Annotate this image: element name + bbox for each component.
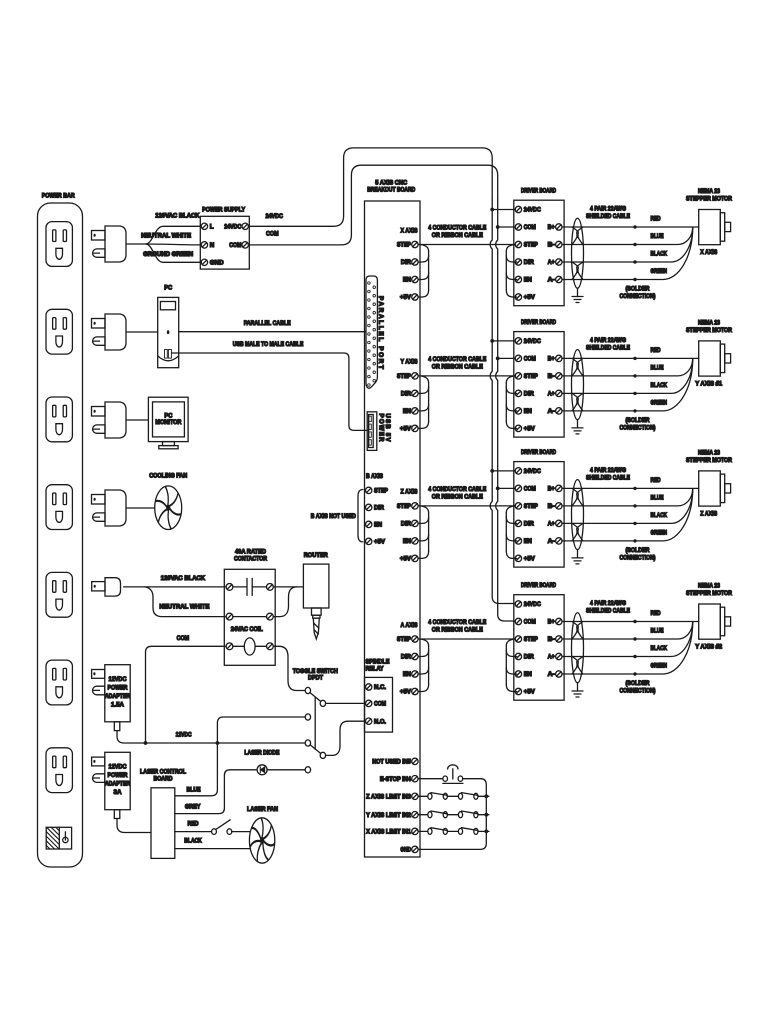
label NEUTRAL WHITE (contactor) — [159, 604, 209, 611]
wire GREY to laser diode line — [175, 770, 256, 814]
label LASER FAN — [247, 806, 278, 813]
ground symbol module 4 — [572, 683, 583, 697]
svg-text:DIR: DIR — [524, 259, 534, 266]
svg-text:GND: GND — [400, 847, 411, 854]
wire RED module 3 — [562, 487, 699, 490]
breakout Y AXIS terminals — [397, 359, 418, 433]
wire BLUE module 3 — [562, 489, 693, 508]
wire RED module 2 — [562, 357, 699, 360]
svg-text:STEPPER MOTOR: STEPPER MOTOR — [686, 327, 732, 334]
wire GREEN module 4 — [562, 622, 693, 676]
svg-text:BLUE: BLUE — [651, 233, 664, 240]
label NEMA 23 STEPPER MOTOR module 4 — [686, 583, 732, 598]
label GREEN module 3 — [651, 529, 668, 536]
svg-text:24VDC: 24VDC — [224, 224, 241, 231]
wire plug P4 to cooling fan — [126, 507, 155, 509]
svg-text:12VDC: 12VDC — [176, 732, 192, 739]
wire NEUTRAL WHITE branch — [145, 587, 226, 617]
plug P4 (cooling fan) — [92, 490, 127, 526]
svg-text:BLACK: BLACK — [651, 645, 668, 652]
label LASER CONTROL BOARD — [140, 768, 186, 782]
svg-text:4 PAIR 22AWG: 4 PAIR 22AWG — [590, 600, 626, 607]
wire cable fan driver side module 4 — [506, 639, 516, 692]
svg-text:STEP: STEP — [524, 636, 538, 643]
5 axis CNC breakout board — [365, 201, 421, 857]
USB 5V power connector — [367, 412, 377, 451]
label 4 PAIR 22AWG SHIELDED CABLE module 2 — [586, 337, 630, 352]
label RED module 3 — [651, 477, 661, 484]
wire 12VDC rail — [146, 741, 305, 745]
driver board module 4 — [514, 595, 564, 701]
svg-text:SHIELDED CABLE: SHIELDED CABLE — [586, 475, 630, 482]
svg-text:EN: EN — [403, 408, 411, 415]
shielded cable twisted pairs module 2 — [572, 350, 584, 420]
label GREY — [185, 803, 201, 810]
svg-text:RED: RED — [651, 610, 661, 617]
plug P1 (power supply) — [92, 226, 127, 262]
svg-text:4 PAIR 22AWG: 4 PAIR 22AWG — [590, 337, 626, 344]
svg-text:STEP: STEP — [397, 373, 411, 380]
label motor axis Z AXIS — [700, 511, 717, 518]
svg-text:EN: EN — [524, 408, 532, 415]
e-stop button — [443, 765, 463, 784]
power bar switch — [46, 827, 71, 849]
wire USB male to male cable — [172, 353, 368, 430]
svg-text:DPDT: DPDT — [308, 674, 323, 681]
svg-text:+5V: +5V — [400, 556, 412, 563]
label COM — [266, 231, 279, 238]
wire X AXIS cable fan (breakout side) — [418, 245, 429, 298]
svg-text:STEP: STEP — [374, 488, 388, 495]
svg-text:X AXIS: X AXIS — [700, 249, 717, 256]
svg-text:NEMA 23: NEMA 23 — [698, 449, 720, 456]
svg-text:CONNECTION): CONNECTION) — [620, 554, 656, 561]
svg-text:A-: A- — [548, 538, 555, 545]
wire COM branch module 2 — [496, 357, 515, 361]
label GREEN module 4 — [651, 662, 668, 669]
label RED module 4 — [651, 610, 661, 617]
label 24VDC — [265, 213, 283, 220]
svg-text:GREEN: GREEN — [651, 268, 668, 275]
label 4 CONDUCTOR CABLE module 3 — [428, 486, 486, 501]
svg-text:A+: A+ — [548, 654, 555, 661]
svg-text:X AXIS: X AXIS — [401, 227, 418, 234]
label USB MALE TO MALE CABLE — [233, 341, 304, 348]
label ROUTER — [304, 552, 328, 559]
svg-text:+5V: +5V — [524, 426, 536, 433]
svg-text:COM: COM — [177, 635, 190, 642]
breakout A AXIS terminals — [397, 622, 418, 696]
stepper motor module 2 (Y AXIS #1) — [699, 341, 731, 376]
laser diode D1 — [257, 765, 267, 775]
ground symbol module 2 — [572, 420, 583, 434]
wire plug P2 to PC — [126, 331, 158, 333]
svg-text:SHIELDED CABLE: SHIELDED CABLE — [586, 213, 630, 220]
wire BLACK module 1 — [562, 227, 693, 263]
label 12VDC — [176, 732, 192, 739]
wire 24VDC branch module 2 — [490, 339, 515, 343]
label 4 CONDUCTOR CABLE module 4 — [428, 619, 486, 634]
breakout B axis terminals (not used) — [366, 473, 389, 546]
label DRIVER BOARD module 1 — [521, 188, 556, 195]
svg-text:1.5A: 1.5A — [111, 701, 125, 708]
wire pole1 to relay COM — [326, 702, 366, 704]
svg-text:STEPPER MOTOR: STEPPER MOTOR — [686, 590, 732, 597]
svg-text:4 CONDUCTOR CABLE: 4 CONDUCTOR CABLE — [428, 619, 486, 626]
wire 24VDC branch module 3 — [490, 469, 515, 473]
svg-text:GREY: GREY — [185, 803, 201, 810]
wire RED with switch — [175, 820, 250, 835]
wire adapter 3A to laser control board — [117, 819, 151, 833]
svg-text:24VDC: 24VDC — [524, 468, 541, 475]
svg-text:SHIELDED CABLE: SHIELDED CABLE — [586, 345, 630, 352]
svg-text:NOT USED IN5: NOT USED IN5 — [372, 759, 411, 766]
svg-text:RED: RED — [651, 215, 661, 222]
label COOLING FAN — [149, 473, 187, 480]
wire RED module 1 — [562, 225, 699, 228]
svg-text:24VDC: 24VDC — [524, 207, 541, 214]
svg-text:BLUE: BLUE — [651, 364, 664, 371]
outlet 3 — [46, 397, 72, 442]
svg-text:Z AXIS: Z AXIS — [700, 511, 717, 518]
wire BLACK module 2 — [562, 359, 693, 395]
svg-text:DIR: DIR — [374, 505, 384, 512]
svg-text:(SOLDER: (SOLDER — [626, 286, 650, 293]
wire contactor row1 to router — [273, 586, 303, 588]
svg-text:+5V: +5V — [400, 426, 412, 433]
wire drop to laser board BLUE — [175, 743, 218, 796]
shielded cable twisted pairs module 1 — [572, 218, 584, 288]
label BLUE module 4 — [651, 627, 664, 634]
svg-text:EN: EN — [403, 277, 411, 284]
outlet 6 — [46, 660, 72, 705]
svg-text:+5V: +5V — [524, 556, 536, 563]
wire 24VDC branch module 1 — [490, 208, 515, 212]
svg-text:(SOLDER: (SOLDER — [626, 417, 650, 424]
svg-text:Y AXIS LIMIT IN2: Y AXIS LIMIT IN2 — [366, 812, 411, 819]
svg-text:24VDC: 24VDC — [265, 213, 283, 220]
svg-text:A+: A+ — [548, 259, 555, 266]
svg-text:STEP: STEP — [397, 636, 411, 643]
label SOLDER CONNECTION module 2 — [620, 417, 656, 431]
svg-text:DIR: DIR — [401, 391, 411, 398]
svg-text:ROUTER: ROUTER — [304, 552, 328, 559]
svg-text:POWER: POWER — [108, 772, 128, 779]
wire 120VAC BLACK to contactor — [124, 586, 226, 588]
wire A AXIS cable fan (breakout side) — [418, 639, 429, 692]
wire BLACK module 3 — [562, 489, 693, 525]
label motor axis Y AXIS #2 — [695, 644, 723, 651]
toggle switch DPDT S1 — [305, 687, 325, 773]
svg-text:5 AXIS CNC: 5 AXIS CNC — [375, 180, 407, 187]
svg-text:EN: EN — [374, 522, 382, 529]
svg-text:STEP: STEP — [524, 242, 538, 249]
svg-text:PARALLEL PORT: PARALLEL PORT — [377, 296, 384, 369]
svg-text:4 CONDUCTOR CABLE: 4 CONDUCTOR CABLE — [428, 486, 486, 493]
4 conductor cable module 4 — [418, 638, 515, 640]
svg-text:COM: COM — [524, 486, 536, 493]
svg-text:BLUE: BLUE — [651, 627, 664, 634]
wire RED module 4 — [562, 620, 699, 623]
breakout Z AXIS terminals — [397, 489, 418, 563]
svg-text:OR RIBBON CABLE: OR RIBBON CABLE — [432, 493, 483, 500]
label 4 CONDUCTOR CABLE module 1 — [428, 224, 486, 239]
svg-text:BLUE: BLUE — [187, 786, 201, 793]
40A rated contactor K1 — [224, 549, 275, 666]
svg-text:STEP: STEP — [524, 373, 538, 380]
svg-text:CONNECTION): CONNECTION) — [620, 424, 656, 431]
svg-text:NEUTRAL WHITE: NEUTRAL WHITE — [159, 604, 209, 611]
svg-text:X AXIS LIMIT IN1: X AXIS LIMIT IN1 — [366, 829, 411, 836]
outlet 5 — [46, 572, 72, 617]
svg-text:COM: COM — [374, 701, 386, 708]
svg-text:3A: 3A — [114, 789, 123, 796]
label BLACK — [184, 838, 202, 845]
svg-text:BLACK: BLACK — [651, 382, 668, 389]
svg-text:B-: B- — [548, 636, 555, 643]
svg-text:BLACK: BLACK — [651, 512, 668, 519]
svg-text:USB MALE TO MALE CABLE: USB MALE TO MALE CABLE — [233, 341, 304, 348]
label RED module 1 — [651, 215, 661, 222]
svg-text:B AXIS NOT USED: B AXIS NOT USED — [311, 513, 356, 520]
label NEUTRAL WHITE — [141, 233, 191, 240]
svg-text:COM: COM — [266, 231, 279, 238]
svg-text:BREAKOUT BOARD: BREAKOUT BOARD — [367, 187, 415, 194]
wire cable fan driver side module 2 — [506, 376, 516, 429]
wire GROUND GREEN — [146, 244, 201, 262]
12VDC power adapter 1.5A — [92, 665, 131, 731]
stepper motor module 3 (Z AXIS) — [699, 471, 731, 506]
wire IN4 to e-stop — [418, 778, 443, 780]
label TOGGLE SWITCH DPDT — [293, 668, 339, 682]
label USB 5V POWER (vertical) — [377, 414, 389, 443]
svg-text:EN: EN — [524, 538, 532, 545]
wire COM branch module 3 — [496, 487, 515, 491]
svg-text:DIR: DIR — [524, 521, 534, 528]
wire BLUE module 1 — [562, 227, 693, 246]
4 conductor cable module 3 — [418, 505, 515, 507]
svg-text:+5V: +5V — [524, 689, 536, 696]
svg-text:EN: EN — [524, 671, 532, 678]
svg-text:DRIVER BOARD: DRIVER BOARD — [521, 188, 556, 195]
label NEMA 23 STEPPER MOTOR module 3 — [686, 449, 732, 464]
svg-text:POWER SUPPLY: POWER SUPPLY — [202, 207, 246, 214]
label LASER DIODE — [244, 750, 279, 757]
svg-text:OR RIBBON CABLE: OR RIBBON CABLE — [432, 363, 483, 370]
svg-text:GND: GND — [210, 260, 224, 267]
label SOLDER CONNECTION module 3 — [620, 547, 656, 561]
svg-text:Z AXIS LIMIT IN3: Z AXIS LIMIT IN3 — [366, 794, 411, 801]
svg-text:B AXIS: B AXIS — [366, 473, 383, 480]
label COM (coil) — [177, 635, 190, 642]
svg-text:COM: COM — [524, 224, 536, 231]
wire GREEN module 2 — [562, 359, 693, 413]
label GREEN module 2 — [651, 399, 668, 406]
svg-text:GREEN: GREEN — [651, 529, 668, 536]
shielded cable twisted pairs module 4 — [572, 613, 584, 683]
svg-text:ADAPTER: ADAPTER — [105, 693, 130, 700]
svg-text:NEUTRAL WHITE: NEUTRAL WHITE — [141, 233, 191, 240]
label PARALLEL PORT (vertical) — [377, 296, 384, 369]
label 4 CONDUCTOR CABLE module 2 — [428, 356, 486, 371]
svg-text:LASER DIODE: LASER DIODE — [244, 750, 279, 757]
svg-text:DIR: DIR — [401, 654, 411, 661]
svg-text:N.C.: N.C. — [374, 684, 386, 691]
svg-text:CONNECTION): CONNECTION) — [620, 687, 656, 694]
svg-text:(SOLDER: (SOLDER — [626, 680, 650, 687]
svg-text:4 PAIR 22AWG: 4 PAIR 22AWG — [590, 206, 626, 213]
power supply PS1 — [200, 207, 249, 269]
label BLUE — [187, 786, 201, 793]
svg-text:+5V: +5V — [400, 294, 412, 301]
svg-text:120VAC BLACK: 120VAC BLACK — [155, 212, 200, 219]
svg-text:STEP: STEP — [524, 503, 538, 510]
wire e-stop to ground bus — [418, 779, 486, 850]
svg-text:Y AXIS #2: Y AXIS #2 — [695, 644, 723, 651]
svg-text:PC: PC — [164, 284, 172, 291]
label DRIVER BOARD module 2 — [521, 319, 556, 326]
svg-text:STEP: STEP — [397, 242, 411, 249]
svg-text:12VDC: 12VDC — [109, 764, 127, 771]
power bar — [38, 203, 83, 867]
Z axis limit switches — [418, 793, 489, 800]
label BLACK module 3 — [651, 512, 668, 519]
svg-text:DRIVER BOARD: DRIVER BOARD — [521, 582, 556, 589]
svg-text:GREEN: GREEN — [651, 399, 668, 406]
wire riser to toggle contact 2 — [217, 717, 305, 743]
plug P3 (monitor) — [92, 402, 127, 438]
svg-text:B-: B- — [548, 373, 555, 380]
svg-text:A AXIS: A AXIS — [401, 622, 418, 629]
svg-text:NEMA 23: NEMA 23 — [698, 188, 720, 195]
shielded cable twisted pairs module 3 — [572, 480, 584, 550]
svg-text:120VAC BLACK: 120VAC BLACK — [161, 575, 206, 582]
wire plug P1 to fan-out — [126, 243, 146, 245]
svg-text:EN: EN — [403, 538, 411, 545]
svg-text:STEP: STEP — [397, 503, 411, 510]
svg-text:RED: RED — [651, 477, 661, 484]
svg-text:NEMA 23: NEMA 23 — [698, 319, 720, 326]
svg-text:Z AXIS: Z AXIS — [401, 489, 418, 496]
label SOLDER CONNECTION module 4 — [620, 680, 656, 694]
wire cable fan driver side module 1 — [506, 245, 516, 298]
svg-text:BOARD: BOARD — [154, 776, 173, 783]
svg-text:L: L — [210, 224, 214, 231]
label GREEN module 1 — [651, 268, 668, 275]
label motor axis Y AXIS #1 — [695, 381, 723, 388]
svg-text:DIR: DIR — [524, 391, 534, 398]
plug P5 (contactor) — [92, 578, 121, 596]
svg-text:COM: COM — [229, 242, 241, 249]
bracket B axis not used — [358, 490, 363, 542]
svg-text:DIR: DIR — [524, 654, 534, 661]
driver board module 1 — [514, 200, 564, 306]
svg-text:B+: B+ — [548, 356, 555, 363]
label BLUE module 3 — [651, 494, 664, 501]
wire 120VAC BLACK — [146, 226, 201, 244]
svg-text:DRIVER BOARD: DRIVER BOARD — [521, 449, 556, 456]
svg-text:24VDC: 24VDC — [524, 601, 541, 608]
wire COM from power supply (inner loop, feeds driver boards) — [249, 165, 515, 621]
wire Y AXIS cable fan (breakout side) — [418, 376, 429, 429]
svg-text:B-: B- — [548, 242, 555, 249]
svg-text:DRIVER BOARD: DRIVER BOARD — [521, 319, 556, 326]
svg-text:STEPPER MOTOR: STEPPER MOTOR — [686, 457, 732, 464]
svg-text:A+: A+ — [548, 391, 555, 398]
outlet 7 — [46, 748, 72, 793]
wire contactor row2 merge to router feed — [273, 587, 297, 617]
svg-text:NEMA 23: NEMA 23 — [698, 583, 720, 590]
svg-text:A-: A- — [548, 671, 555, 678]
svg-text:A+: A+ — [548, 521, 555, 528]
router — [303, 564, 329, 639]
label motor axis X AXIS — [700, 249, 717, 256]
svg-text:CONNECTION): CONNECTION) — [620, 293, 656, 300]
driver board module 3 — [514, 462, 564, 567]
svg-text:DIR: DIR — [401, 259, 411, 266]
label BLUE module 2 — [651, 364, 664, 371]
outlet 2 — [46, 309, 72, 354]
12VDC power adapter 3A — [92, 752, 131, 818]
wire pole2 to relay N.O. — [326, 721, 366, 755]
svg-text:POWER: POWER — [108, 684, 128, 691]
label 4 PAIR 22AWG SHIELDED CABLE module 1 — [586, 206, 630, 221]
svg-text:B+: B+ — [548, 486, 555, 493]
4 conductor cable module 1 — [418, 244, 515, 246]
svg-text:SHIELDED CABLE: SHIELDED CABLE — [586, 608, 630, 615]
svg-text:24VDC: 24VDC — [524, 338, 541, 345]
power bar label — [42, 192, 75, 199]
svg-text:LASER FAN: LASER FAN — [247, 806, 278, 813]
label SOLDER CONNECTION module 1 — [620, 286, 656, 300]
wire BLUE module 4 — [562, 622, 693, 641]
svg-text:B-: B- — [548, 503, 555, 510]
ground symbol module 3 — [572, 550, 583, 564]
svg-text:A-: A- — [548, 277, 555, 284]
label B AXIS NOT USED — [311, 513, 356, 520]
label GROUND GREEN — [143, 251, 194, 258]
svg-text:+5V: +5V — [524, 294, 536, 301]
svg-text:COOLING FAN: COOLING FAN — [149, 473, 187, 480]
laser control board — [151, 788, 175, 859]
svg-text:RED: RED — [188, 820, 199, 827]
wire parallel cable — [179, 331, 366, 333]
svg-text:12VDC: 12VDC — [109, 676, 127, 683]
svg-text:24VAC COIL: 24VAC COIL — [231, 626, 263, 633]
svg-text:DIR: DIR — [401, 521, 411, 528]
svg-text:RED: RED — [651, 347, 661, 354]
driver board module 2 — [514, 332, 564, 438]
wire 24VDC from power supply (top loop, feeds driver boards) — [249, 148, 515, 604]
label 5 AXIS CNC BREAKOUT BOARD — [367, 180, 415, 194]
svg-text:(SOLDER: (SOLDER — [626, 547, 650, 554]
wire Z AXIS cable fan (breakout side) — [418, 506, 429, 559]
PC tower — [158, 284, 179, 367]
label 4 PAIR 22AWG SHIELDED CABLE module 4 — [586, 600, 630, 615]
svg-text:STEPPER MOTOR: STEPPER MOTOR — [686, 196, 732, 203]
outlet 4 — [46, 485, 72, 530]
svg-text:COM: COM — [524, 356, 536, 363]
svg-text:COM: COM — [524, 619, 536, 626]
outlet 1 — [46, 222, 72, 267]
svg-text:GREEN: GREEN — [651, 662, 668, 669]
svg-text:PARALLEL CABLE: PARALLEL CABLE — [244, 320, 291, 327]
label BLACK module 4 — [651, 645, 668, 652]
4 conductor cable module 2 — [418, 375, 515, 377]
svg-text:4 PAIR 22AWG: 4 PAIR 22AWG — [590, 467, 626, 474]
label DRIVER BOARD module 4 — [521, 582, 556, 589]
svg-text:MONITOR: MONITOR — [155, 419, 181, 426]
